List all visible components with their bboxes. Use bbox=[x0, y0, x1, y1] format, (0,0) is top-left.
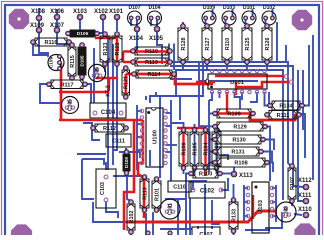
wire bbox=[150, 62, 203, 103]
wire bbox=[33, 42, 49, 55]
svg-text:R112: R112 bbox=[103, 126, 116, 132]
svg-text:R106: R106 bbox=[181, 143, 187, 156]
svg-text:C104: C104 bbox=[101, 110, 116, 116]
wire bbox=[134, 29, 137, 51]
svg-text:D101: D101 bbox=[243, 5, 255, 11]
wire bbox=[233, 232, 235, 235]
wire bbox=[136, 105, 138, 170]
wire bbox=[272, 187, 276, 189]
svg-text:R134: R134 bbox=[279, 104, 293, 110]
resistor R127 bbox=[202, 24, 212, 65]
wire bbox=[272, 215, 276, 217]
wire bbox=[212, 200, 220, 224]
wire bbox=[191, 180, 207, 182]
wire bbox=[170, 100, 172, 181]
wire bbox=[182, 22, 184, 26]
wire bbox=[107, 36, 109, 170]
wire bbox=[119, 152, 140, 158]
resistor R112 bbox=[91, 124, 129, 132]
svg-text:C103: C103 bbox=[100, 182, 106, 195]
resistor R107 bbox=[288, 164, 296, 204]
test point X101 bbox=[109, 9, 124, 20]
svg-text:D103: D103 bbox=[223, 5, 235, 11]
resistor R126 bbox=[262, 24, 272, 65]
wire bbox=[244, 187, 248, 189]
svg-text:R131: R131 bbox=[231, 150, 244, 156]
wire bbox=[150, 18, 152, 26]
wire bbox=[179, 96, 181, 120]
capacitor C101 bbox=[160, 199, 180, 219]
mounting hole top-left bbox=[9, 9, 29, 29]
test point X108 bbox=[31, 9, 46, 21]
svg-text:R111: R111 bbox=[277, 113, 290, 119]
wire bbox=[252, 9, 254, 18]
wire bbox=[194, 124, 196, 129]
resistor R110 vertical bbox=[222, 24, 232, 65]
wire bbox=[160, 228, 192, 230]
svg-text:X113: X113 bbox=[239, 173, 253, 179]
diode D104 bbox=[148, 5, 162, 25]
wire bbox=[104, 65, 106, 72]
wire bbox=[137, 136, 142, 138]
wire bbox=[232, 9, 234, 18]
svg-text:U103: U103 bbox=[258, 199, 264, 214]
wire bbox=[272, 201, 276, 203]
svg-text:C110: C110 bbox=[173, 185, 186, 191]
wire bbox=[226, 62, 228, 71]
wire bbox=[235, 92, 241, 109]
op-amp U100 bbox=[140, 108, 167, 167]
svg-text:X111: X111 bbox=[298, 193, 312, 199]
svg-text:R110: R110 bbox=[225, 38, 231, 51]
wire bbox=[209, 92, 212, 100]
wire bbox=[186, 174, 191, 236]
svg-text:D106: D106 bbox=[77, 31, 89, 37]
wire bbox=[136, 20, 138, 29]
wire bbox=[265, 92, 270, 106]
red trace bbox=[124, 74, 126, 97]
red trace bbox=[123, 61, 171, 64]
svg-text:X112: X112 bbox=[298, 178, 312, 184]
op-amp U103 bbox=[246, 182, 273, 233]
wire bbox=[56, 9, 58, 30]
wire bbox=[233, 167, 235, 174]
svg-text:D102: D102 bbox=[263, 5, 275, 11]
wire bbox=[113, 65, 117, 150]
red trace bbox=[252, 195, 254, 219]
svg-text:D109: D109 bbox=[203, 5, 215, 11]
resistor R102 bbox=[127, 200, 135, 235]
test point X106 bbox=[50, 9, 65, 20]
wire bbox=[267, 163, 273, 173]
wire bbox=[105, 162, 107, 170]
wire bbox=[57, 30, 69, 44]
wire bbox=[155, 92, 157, 96]
wire bbox=[192, 181, 194, 190]
svg-text:R102: R102 bbox=[129, 211, 135, 224]
wire bbox=[40, 84, 61, 103]
wire bbox=[149, 150, 151, 166]
svg-text:R127: R127 bbox=[205, 38, 211, 51]
resistor R123 bbox=[100, 32, 110, 67]
wire bbox=[183, 62, 190, 70]
resistor R117 bbox=[47, 80, 88, 89]
wire bbox=[113, 175, 142, 177]
wire bbox=[39, 30, 48, 57]
resistor R116 bbox=[31, 38, 72, 46]
wire bbox=[250, 92, 257, 102]
diode D101 bbox=[242, 5, 256, 25]
svg-text:R101: R101 bbox=[154, 188, 160, 201]
wire bbox=[285, 45, 287, 62]
wire bbox=[245, 229, 270, 231]
wire bbox=[175, 70, 283, 200]
wire bbox=[77, 153, 106, 155]
wire bbox=[266, 18, 268, 26]
wire bbox=[303, 45, 309, 106]
test point X102 bbox=[94, 9, 109, 20]
wire bbox=[38, 8, 40, 30]
wire bbox=[222, 173, 231, 175]
red trace bbox=[177, 127, 206, 129]
red trace bbox=[217, 112, 250, 114]
diode D107 bbox=[128, 5, 142, 25]
wire bbox=[82, 159, 94, 199]
wire bbox=[221, 155, 228, 160]
wire bbox=[165, 62, 292, 167]
wire bbox=[265, 127, 270, 182]
wire bbox=[209, 151, 215, 153]
diode D109 bbox=[202, 5, 216, 25]
wire bbox=[211, 226, 213, 229]
svg-text:R110: R110 bbox=[145, 49, 158, 55]
resistor R109 bbox=[213, 109, 256, 118]
diode D108 bbox=[123, 150, 130, 176]
svg-text:R125: R125 bbox=[245, 38, 251, 51]
resistor R133 bbox=[229, 198, 238, 234]
svg-text:C108: C108 bbox=[284, 206, 290, 218]
wire bbox=[266, 62, 268, 71]
resistor R130 bbox=[213, 135, 266, 144]
wire bbox=[272, 9, 274, 18]
svg-text:R114: R114 bbox=[147, 72, 161, 78]
wire bbox=[194, 124, 196, 176]
diode D102 bbox=[262, 5, 276, 25]
svg-text:R100: R100 bbox=[199, 172, 212, 178]
wire bbox=[130, 18, 132, 26]
pad bbox=[146, 231, 150, 235]
wire bbox=[171, 123, 184, 129]
wire bbox=[170, 78, 192, 80]
resistor R100 bbox=[189, 169, 223, 178]
red trace bbox=[250, 114, 295, 121]
wire bbox=[298, 70, 303, 201]
wire bbox=[173, 44, 175, 71]
svg-text:C105: C105 bbox=[68, 99, 74, 111]
wire bbox=[208, 100, 210, 172]
wire bbox=[170, 66, 303, 187]
test point X105 bbox=[149, 26, 164, 42]
svg-text:R126: R126 bbox=[265, 38, 271, 51]
svg-text:C102: C102 bbox=[200, 189, 215, 195]
svg-text:D105: D105 bbox=[80, 55, 85, 66]
wire bbox=[209, 139, 215, 141]
resistor R105 bbox=[190, 128, 199, 171]
svg-text:X109: X109 bbox=[30, 23, 45, 29]
wire bbox=[199, 80, 258, 82]
red trace bbox=[96, 77, 118, 79]
svg-text:D104: D104 bbox=[149, 5, 161, 11]
wire bbox=[199, 62, 215, 127]
svg-text:U100: U100 bbox=[153, 130, 159, 144]
wire bbox=[302, 70, 304, 130]
wire bbox=[152, 212, 154, 235]
wire bbox=[261, 152, 272, 163]
wire bbox=[243, 185, 245, 222]
capacitor C106 bbox=[88, 64, 105, 81]
capacitor C111 bbox=[106, 134, 131, 147]
wire bbox=[268, 92, 270, 104]
transistor C105 bbox=[62, 97, 79, 114]
svg-text:X108: X108 bbox=[31, 9, 46, 15]
resistor R131 bbox=[213, 147, 264, 156]
wire bbox=[166, 151, 172, 153]
wire bbox=[137, 123, 142, 125]
resistor R110 bbox=[131, 47, 173, 55]
wire bbox=[183, 169, 185, 174]
wire bbox=[244, 215, 248, 217]
svg-text:D107: D107 bbox=[129, 5, 141, 11]
wire bbox=[125, 148, 127, 152]
wire bbox=[166, 144, 178, 146]
wire bbox=[209, 162, 215, 164]
test point X110 bbox=[298, 207, 312, 218]
svg-text:X107: X107 bbox=[50, 23, 65, 29]
op-amp U101 bbox=[206, 69, 267, 93]
resistor R108 bbox=[213, 158, 270, 167]
mounting hole bottom-left bbox=[11, 224, 32, 240]
wire bbox=[156, 20, 158, 29]
svg-text:R116: R116 bbox=[44, 40, 57, 46]
svg-text:X101: X101 bbox=[109, 9, 124, 15]
wire bbox=[204, 184, 206, 235]
svg-text:R133: R133 bbox=[231, 209, 237, 222]
red trace bbox=[123, 50, 171, 53]
resistor R129 bbox=[213, 122, 268, 131]
red trace bbox=[126, 74, 213, 84]
resistor R111 bbox=[265, 111, 302, 120]
wire bbox=[112, 44, 114, 165]
svg-text:R104: R104 bbox=[203, 143, 209, 156]
red trace bbox=[126, 211, 277, 222]
wire bbox=[116, 17, 118, 31]
red trace bbox=[108, 78, 110, 91]
wire bbox=[130, 233, 132, 235]
svg-text:X106: X106 bbox=[50, 9, 65, 15]
svg-text:R119: R119 bbox=[145, 60, 158, 66]
svg-text:R123: R123 bbox=[103, 43, 109, 56]
svg-text:C111: C111 bbox=[112, 139, 125, 145]
pad bbox=[168, 231, 172, 235]
transistor C109 bbox=[48, 55, 64, 71]
wire bbox=[275, 185, 277, 222]
wire bbox=[159, 96, 161, 178]
wire bbox=[168, 44, 170, 65]
mounting hole top-right bbox=[292, 10, 312, 30]
wire bbox=[299, 114, 305, 158]
red trace bbox=[95, 38, 117, 64]
svg-text:C107: C107 bbox=[199, 232, 212, 235]
capacitor C110 bbox=[168, 181, 191, 192]
wire bbox=[217, 173, 223, 175]
wire bbox=[233, 184, 235, 199]
capacitor C104 bbox=[90, 103, 126, 118]
wire bbox=[175, 70, 177, 96]
resistor R103 bbox=[212, 128, 221, 171]
wire bbox=[145, 213, 147, 235]
wire bbox=[127, 166, 131, 201]
wire bbox=[246, 62, 248, 71]
svg-text:R117: R117 bbox=[60, 82, 73, 88]
wire bbox=[137, 110, 142, 112]
resistor R104 bbox=[201, 128, 210, 171]
red trace bbox=[122, 52, 125, 63]
svg-text:X104: X104 bbox=[129, 36, 144, 42]
via bbox=[290, 80, 294, 84]
wire bbox=[68, 42, 70, 46]
wire bbox=[177, 198, 179, 235]
wire bbox=[206, 18, 208, 26]
red trace bbox=[235, 82, 237, 95]
svg-text:D108: D108 bbox=[124, 157, 129, 168]
wire bbox=[82, 159, 104, 165]
test point X109 bbox=[30, 23, 45, 33]
svg-text:R128: R128 bbox=[181, 38, 187, 51]
wire bbox=[197, 226, 199, 229]
resistor R128 bbox=[178, 24, 188, 65]
wire bbox=[209, 113, 215, 115]
wire bbox=[137, 149, 142, 151]
red trace bbox=[60, 63, 63, 120]
wire bbox=[106, 201, 118, 218]
wire bbox=[291, 200, 293, 206]
svg-text:X103: X103 bbox=[73, 9, 88, 15]
wire bbox=[246, 18, 248, 26]
resistor R121 bbox=[122, 66, 130, 100]
wire bbox=[166, 112, 172, 114]
red trace bbox=[215, 75, 284, 78]
wire bbox=[212, 9, 214, 18]
diode D106 bbox=[66, 30, 100, 37]
wire bbox=[97, 17, 103, 33]
resistor R122 bbox=[112, 32, 122, 67]
svg-text:R129: R129 bbox=[233, 125, 246, 131]
svg-text:X110: X110 bbox=[298, 207, 312, 213]
resistor R113 bbox=[140, 175, 149, 213]
red trace bbox=[182, 128, 184, 170]
wire bbox=[145, 96, 147, 100]
svg-text:U101: U101 bbox=[230, 80, 245, 86]
diode D103 bbox=[222, 5, 236, 25]
wire bbox=[294, 214, 302, 215]
wire bbox=[137, 162, 142, 164]
red trace bbox=[196, 81, 215, 84]
resistor R134 bbox=[268, 101, 305, 110]
svg-text:X102: X102 bbox=[94, 9, 109, 15]
wire bbox=[216, 124, 218, 174]
resistor R101 bbox=[152, 177, 161, 213]
svg-text:X105: X105 bbox=[149, 36, 164, 42]
wire bbox=[70, 17, 80, 33]
resistor R115 bbox=[68, 43, 76, 81]
diode D105 bbox=[78, 43, 86, 80]
svg-text:R115: R115 bbox=[70, 55, 76, 68]
wire bbox=[157, 29, 162, 64]
via bbox=[285, 75, 289, 79]
wire bbox=[244, 201, 248, 203]
test point X113 bbox=[231, 171, 253, 179]
red trace bbox=[59, 119, 143, 122]
resistor R125 bbox=[242, 24, 252, 65]
test point X104 bbox=[129, 26, 144, 42]
wire bbox=[226, 18, 228, 26]
svg-text:R109: R109 bbox=[227, 112, 240, 118]
svg-text:R105: R105 bbox=[192, 143, 198, 156]
capacitor C102 bbox=[189, 182, 225, 198]
resistor R119 bbox=[131, 58, 173, 66]
wire bbox=[241, 92, 243, 100]
svg-text:R130: R130 bbox=[232, 138, 245, 144]
test point X107 bbox=[50, 23, 65, 33]
wire bbox=[165, 198, 186, 200]
red trace bbox=[59, 91, 109, 94]
capacitor C107 bbox=[192, 227, 220, 240]
wire bbox=[312, 35, 314, 180]
test point X103 bbox=[73, 9, 88, 20]
svg-text:R122: R122 bbox=[115, 43, 121, 56]
svg-text:R107: R107 bbox=[290, 177, 296, 190]
wire bbox=[93, 202, 126, 222]
red trace bbox=[204, 128, 206, 176]
wire bbox=[83, 123, 100, 140]
wire bbox=[189, 198, 191, 235]
test point X112 bbox=[298, 178, 312, 190]
svg-text:R113: R113 bbox=[142, 187, 148, 200]
transistor C108 bbox=[276, 202, 296, 222]
svg-text:R121: R121 bbox=[124, 76, 130, 89]
capacitor C103 bbox=[96, 169, 116, 208]
svg-text:C101: C101 bbox=[168, 203, 174, 215]
svg-text:C106: C106 bbox=[95, 67, 101, 79]
red trace bbox=[226, 92, 228, 114]
wire bbox=[276, 22, 278, 62]
wire bbox=[221, 178, 228, 190]
red trace bbox=[138, 120, 144, 218]
test point X111 bbox=[298, 193, 312, 204]
svg-text:KT-2: KT-2 bbox=[106, 85, 112, 96]
resistor R114 bbox=[132, 70, 177, 78]
wire bbox=[219, 92, 221, 98]
wire bbox=[86, 84, 91, 103]
wire bbox=[81, 78, 83, 81]
red trace bbox=[124, 120, 134, 230]
wire bbox=[166, 125, 172, 127]
mounting hole bottom-right bbox=[294, 223, 315, 240]
red trace bbox=[236, 82, 289, 87]
wire bbox=[206, 62, 208, 71]
svg-text:C109: C109 bbox=[49, 56, 55, 68]
wire bbox=[265, 212, 282, 228]
